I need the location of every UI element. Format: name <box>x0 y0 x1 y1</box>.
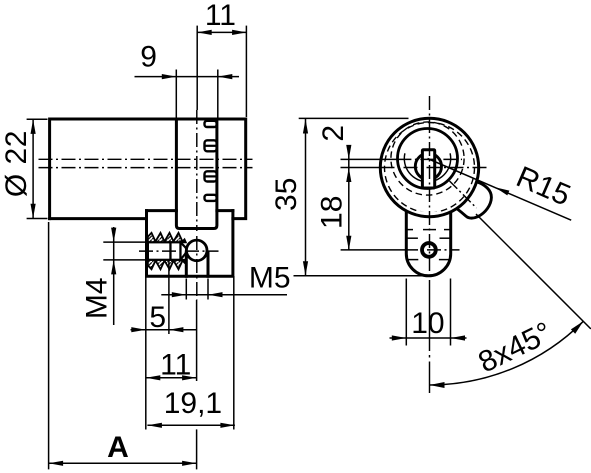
svg-text:M4: M4 <box>80 277 113 319</box>
svg-text:11: 11 <box>160 348 191 381</box>
svg-text:10: 10 <box>411 307 444 340</box>
svg-text:2: 2 <box>317 125 350 142</box>
svg-text:9: 9 <box>140 40 157 73</box>
svg-text:19,1: 19,1 <box>164 387 222 420</box>
svg-text:35: 35 <box>270 178 303 211</box>
svg-text:Ø 22: Ø 22 <box>0 130 33 197</box>
svg-text:18: 18 <box>316 196 349 229</box>
svg-text:5: 5 <box>149 301 166 334</box>
svg-text:M5: M5 <box>249 262 291 295</box>
svg-text:11: 11 <box>205 0 236 32</box>
svg-text:A: A <box>107 431 129 464</box>
